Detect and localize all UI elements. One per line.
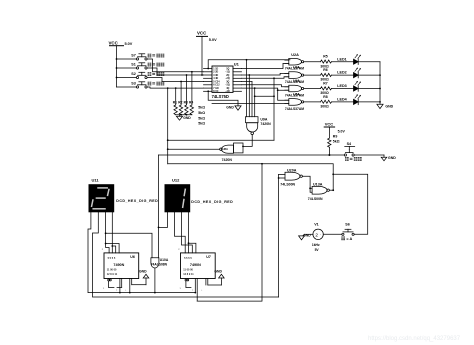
svg-text:R5: R5 <box>323 55 327 59</box>
wire row to S4 <box>159 154 345 156</box>
svg-text:·: · <box>320 233 321 237</box>
svg-text:GND: GND <box>385 105 393 109</box>
wire S2 to U1 pin5 <box>147 78 203 82</box>
svg-text:R7: R7 <box>323 82 327 86</box>
svg-text:U11: U11 <box>92 178 100 183</box>
U7 bottom pins <box>185 279 208 302</box>
svg-text:https://blog.csdn.net/qq_43279: https://blog.csdn.net/qq_43279637 <box>368 336 461 342</box>
wire feedback A <box>168 139 274 141</box>
ground U7 <box>208 274 224 285</box>
svg-text:3Q: 3Q <box>226 81 229 83</box>
svg-text:5 C34: 5 C34 <box>213 80 220 83</box>
svg-text:GND: GND <box>226 105 234 109</box>
op-amp U9A 7420N 4-input NAND (down) <box>246 117 259 135</box>
resistor R3 <box>185 74 188 115</box>
svg-text:R2: R2 <box>178 100 182 104</box>
svg-text:R4: R4 <box>189 100 193 104</box>
switch S1 <box>117 63 148 69</box>
svg-text:5.0V: 5.0V <box>338 129 346 133</box>
U1 inner pin names <box>213 68 230 93</box>
svg-text:7490N: 7490N <box>113 263 124 267</box>
svg-text:U3A: U3A <box>293 66 300 70</box>
svg-text:U12: U12 <box>172 178 180 183</box>
wire U12 pin1 to U10A input a <box>159 212 168 227</box>
wire U1 wrap bottom to ground <box>208 91 238 106</box>
svg-text:11 00 00: 11 00 00 <box>107 269 117 272</box>
ground below R bank <box>176 115 182 121</box>
svg-text:R8: R8 <box>323 95 327 99</box>
resistor R2 <box>179 81 182 115</box>
svg-text:5kΩ: 5kΩ <box>198 116 205 120</box>
svg-text:U10A: U10A <box>160 258 169 262</box>
svg-text:11 00 00: 11 00 00 <box>183 269 193 272</box>
svg-text:3 3D: 3 3D <box>213 75 218 77</box>
wire U11 pin3 to U10A input b and U6 pin1 <box>106 212 152 257</box>
resistor R4 <box>190 71 193 115</box>
U6 bottom pins <box>108 279 132 293</box>
wire gate3 lower to gate4 upper input <box>278 90 289 100</box>
svg-text:5 5 5 5: 5 5 5 5 <box>184 257 192 260</box>
node VCC branch dots <box>116 58 118 78</box>
svg-text:U9A: U9A <box>260 118 267 122</box>
resistor R7 300ohm <box>321 87 354 90</box>
wire U7 pin4 tap <box>189 243 196 253</box>
switch S4 <box>344 146 354 156</box>
svg-text:VCC: VCC <box>109 40 119 45</box>
resistor R1 <box>174 87 177 115</box>
svg-text:S2: S2 <box>131 72 136 76</box>
wire S3 to U1 pin7 <box>147 87 203 88</box>
wire U6 pin4 tap <box>106 244 120 253</box>
gate U3A 74ALS37AM <box>285 72 321 79</box>
svg-text:GND: GND <box>183 116 191 120</box>
svg-text:~2Q: ~2Q <box>225 78 230 80</box>
svg-text:DCD_HEX_DIG_RED: DCD_HEX_DIG_RED <box>191 200 233 204</box>
pin stubs left U1 <box>204 69 213 92</box>
wire U7 bottom to right feedback vertical <box>197 164 262 301</box>
wire U8A output to left bus <box>168 148 220 150</box>
wire U12 pin2 to U7 pin1 <box>175 212 186 253</box>
wire resistor bank bottom joining <box>176 114 192 116</box>
resistor bank labels R1 R2 R3 R4 <box>173 100 205 125</box>
node S3 bus tap <box>167 87 169 89</box>
wire U1 wrap top to gate U2A input <box>208 60 290 69</box>
pin stubs right U1 <box>233 69 242 92</box>
svg-text:5 5 5 5: 5 5 5 5 <box>108 257 116 260</box>
svg-text:VCC: VCC <box>325 122 334 127</box>
svg-text:5kΩ: 5kΩ <box>333 140 340 144</box>
switch S7 <box>117 54 148 60</box>
svg-text:~1Q: ~1Q <box>225 72 230 74</box>
op U1 latch 74LS75D <box>204 66 242 93</box>
wire U9A input1 vertical <box>246 60 248 117</box>
wire U12 pin4 to U7 pin2 <box>188 212 190 253</box>
svg-text:300Ω: 300Ω <box>320 105 329 109</box>
svg-text:S7: S7 <box>131 53 136 57</box>
svg-text:5kΩ: 5kΩ <box>198 106 205 110</box>
svg-text:U7: U7 <box>206 255 211 259</box>
counter U6 7490N <box>102 249 139 279</box>
svg-text:1 1D: 1 1D <box>213 68 218 70</box>
svg-text:12 8 9 11: 12 8 9 11 <box>183 273 194 276</box>
svg-text:74LS75D: 74LS75D <box>212 94 229 99</box>
wire S7 to U1 pin2 <box>147 59 203 72</box>
svg-text:R6: R6 <box>323 68 327 72</box>
wire U11 pin2 around left to lower bus <box>93 212 279 297</box>
svg-text:GND: GND <box>139 270 147 274</box>
svg-text:U5A: U5A <box>293 92 300 96</box>
svg-text:GND: GND <box>214 270 222 274</box>
svg-text:U1: U1 <box>234 62 240 67</box>
svg-text:7 GD: 7 GD <box>213 88 219 90</box>
svg-text:S3: S3 <box>131 81 136 85</box>
switch S6 <box>342 229 354 235</box>
wire S1 to U1 pin3 <box>147 68 203 75</box>
svg-text:GND: GND <box>388 156 396 160</box>
svg-text:LED1: LED1 <box>337 57 346 61</box>
svg-text:LED2: LED2 <box>337 71 346 75</box>
svg-text:1Q: 1Q <box>226 68 229 70</box>
svg-text:S1: S1 <box>131 62 136 66</box>
wire U1 q-row6 to gate3 lower input <box>242 88 289 90</box>
wire feedback vertical x274 down <box>273 78 275 140</box>
wire U9A input2 vertical <box>248 75 250 117</box>
gate U4A 74ALS37AM <box>285 85 321 92</box>
svg-text:V1: V1 <box>314 222 319 226</box>
wire S4 to ground <box>354 154 384 156</box>
svg-text:4Q: 4Q <box>226 87 229 90</box>
gate U13A 74LS00N <box>312 186 333 194</box>
svg-text:5kΩ: 5kΩ <box>198 122 205 126</box>
switch S3 <box>117 82 148 88</box>
svg-text:R9: R9 <box>333 134 338 138</box>
node left bus x167.7 <box>167 88 169 164</box>
wire C feedback to U13A output <box>168 164 334 190</box>
resistor R6 300ohm <box>321 73 354 76</box>
svg-text:6 C12: 6 C12 <box>213 85 220 87</box>
wire U1 q-row5 to gate3 upper input <box>242 85 289 87</box>
wire U6 pin3 tap <box>112 246 115 253</box>
svg-text:U20A: U20A <box>287 168 297 172</box>
display U11 DCD_HEX_DIG_RED showing 2 <box>89 184 115 212</box>
ground LED bus <box>377 104 383 108</box>
wire feedback tap to vertical x274 <box>255 95 274 97</box>
wire loop node to S6 <box>333 174 368 234</box>
wire lower bus to U20A input <box>278 174 280 297</box>
switch S2 <box>117 72 148 78</box>
ground V1 <box>299 234 305 240</box>
wire U1 q-row2 to gate2 upper input <box>242 73 289 75</box>
wire U12 pin3 to U7 pin3 <box>182 212 193 253</box>
ground U6 <box>132 274 149 284</box>
svg-text:LED3: LED3 <box>337 84 346 88</box>
resistor R8 300ohm <box>321 100 354 103</box>
svg-text:DCD_HEX_DIG_RED: DCD_HEX_DIG_RED <box>116 199 158 203</box>
gate U10A 74ALS08N (AND, points down) <box>151 258 159 294</box>
wire U11 pin4 to U6 pin2 <box>111 212 113 253</box>
wire U1 q-row1 to gate1 lower input <box>242 63 289 68</box>
source V1 1kHz 5V <box>305 229 342 239</box>
wire U9A input4 vertical <box>254 88 256 117</box>
wire LED cathode bus <box>379 62 381 105</box>
gate U20A 74LS00N <box>278 172 303 180</box>
wire U1 q-row3 to gate2 lower input <box>242 77 289 79</box>
svg-text:1kHz: 1kHz <box>312 243 320 247</box>
VCC rail top-left <box>110 46 124 87</box>
resistor R9 5k <box>328 138 331 155</box>
svg-text:LED4: LED4 <box>337 98 347 102</box>
display U12 DCD_HEX_DIG_RED showing 1 <box>165 184 191 212</box>
svg-text:74LS00N: 74LS00N <box>308 197 323 201</box>
VCC rail top-middle <box>197 36 208 75</box>
wire U10A input a from row wire <box>158 155 160 258</box>
wire U1 row to U9A input3 <box>242 81 253 83</box>
svg-text:4 4D: 4 4D <box>213 77 218 80</box>
svg-text:74LS00N: 74LS00N <box>280 182 295 186</box>
svg-text:74ALS37AM: 74ALS37AM <box>285 107 304 111</box>
LED4 <box>354 94 381 104</box>
svg-text:R1: R1 <box>173 100 177 104</box>
gate U5A 74ALS37AM <box>285 99 321 106</box>
svg-text:2 2D: 2 2D <box>213 72 218 74</box>
svg-text:U4A: U4A <box>293 79 300 83</box>
svg-text:= A: = A <box>346 237 352 241</box>
svg-text:2: 2 <box>315 232 318 237</box>
svg-text:5.0V: 5.0V <box>209 38 217 42</box>
wire U9A input3 vertical <box>251 82 253 117</box>
ground U1 <box>235 106 241 110</box>
LED1 <box>354 54 381 64</box>
svg-text:U8A: U8A <box>223 147 228 151</box>
svg-text:74ALS08N: 74ALS08N <box>151 263 168 267</box>
svg-text:8 VC: 8 VC <box>213 91 218 93</box>
wire U9A output down-left to U8A <box>243 135 252 147</box>
svg-text:~4Q: ~4Q <box>225 90 230 93</box>
svg-text:VCC: VCC <box>197 31 207 36</box>
LED2 <box>354 68 381 78</box>
svg-text:U13A: U13A <box>313 182 323 186</box>
svg-text:U6: U6 <box>130 255 135 259</box>
svg-text:U2A: U2A <box>291 53 299 57</box>
svg-text:12 8 9 11: 12 8 9 11 <box>107 273 118 276</box>
gate U8A 7420N (points left) <box>220 143 243 153</box>
wire U11 pin1 around left to bottom bus <box>88 212 195 292</box>
svg-text:7490N: 7490N <box>190 263 201 267</box>
svg-text:R3: R3 <box>184 100 188 104</box>
wire U20A output to U13A inputs <box>302 176 312 192</box>
ground S4 <box>381 155 387 161</box>
wire to gate4 lower input <box>212 103 289 105</box>
svg-text:5.0V: 5.0V <box>125 42 133 46</box>
svg-text:GND: GND <box>303 234 311 238</box>
svg-text:7420N: 7420N <box>222 158 233 162</box>
svg-text:5kΩ: 5kΩ <box>198 111 205 115</box>
svg-text:7420N: 7420N <box>260 122 271 126</box>
VCC rail right <box>324 127 334 138</box>
svg-text:2Q: 2Q <box>226 75 229 77</box>
gate U2A 74ALS37AM <box>285 58 321 65</box>
LED3 <box>354 81 381 91</box>
resistor R5 300ohm <box>321 60 354 63</box>
tiny pin number labels <box>103 288 203 292</box>
svg-text:~3Q: ~3Q <box>225 85 230 87</box>
counter U7 7490N <box>178 249 215 279</box>
svg-text:S6: S6 <box>345 222 350 226</box>
